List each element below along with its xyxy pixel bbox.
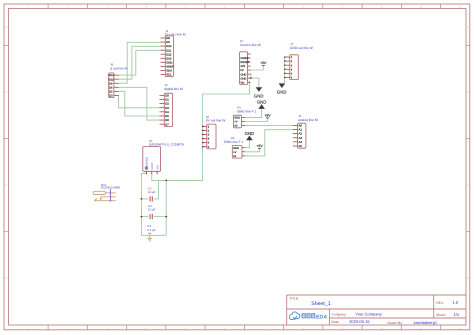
svg-text:SCL: SCL — [166, 73, 172, 77]
svg-text:d out line M: d out line M — [110, 67, 127, 71]
svg-text:Service line W: Service line W — [240, 43, 262, 47]
svg-text:Date:: Date: — [332, 320, 340, 324]
svg-text:D6: D6 — [109, 86, 113, 89]
svg-text:GND out line W: GND out line W — [290, 46, 314, 50]
svg-text:Vin: Vin — [240, 81, 244, 84]
svg-text:GND(ADJ): GND(ADJ) — [146, 157, 149, 170]
svg-text:IOREF: IOREF — [240, 57, 249, 60]
svg-text:VOUT: VOUT — [151, 162, 154, 170]
svg-text:REV:: REV: — [436, 301, 444, 305]
svg-text:VIN: VIN — [156, 165, 159, 169]
svg-text:GND: GND — [234, 117, 240, 120]
svg-text:EDA: EDA — [316, 314, 327, 320]
svg-text:D3: D3 — [109, 95, 113, 98]
svg-text:A1: A1 — [233, 155, 237, 158]
svg-text:GND: GND — [245, 131, 255, 136]
svg-text:D10: D10 — [109, 78, 114, 81]
svg-text:5V: 5V — [240, 69, 243, 72]
svg-text:Sheet_1: Sheet_1 — [311, 301, 330, 307]
svg-text:digital line M: digital line M — [164, 87, 183, 91]
svg-text:10 µF: 10 µF — [148, 190, 156, 194]
svg-text:+5V: +5V — [257, 144, 264, 148]
svg-text:GND: GND — [240, 77, 246, 80]
svg-text:D11: D11 — [109, 74, 114, 77]
svg-text:10 µF: 10 µF — [148, 208, 156, 212]
svg-text:B: B — [5, 91, 7, 94]
svg-text:1.0: 1.0 — [453, 300, 459, 305]
svg-text:D: D — [467, 277, 469, 280]
svg-text:Drawn By:: Drawn By: — [388, 321, 403, 325]
svg-text:Company:: Company: — [332, 313, 347, 317]
svg-text:C: C — [467, 184, 469, 187]
svg-text:0.1 µF: 0.1 µF — [147, 228, 155, 232]
svg-text:D: D — [5, 277, 7, 280]
svg-text:GND: GND — [233, 147, 239, 150]
svg-text:1/1: 1/1 — [454, 312, 460, 317]
svg-text:A: A — [5, 26, 7, 29]
svg-text:analog line M: analog line M — [298, 118, 318, 122]
svg-text:A: A — [467, 26, 469, 29]
svg-text:vasvladserg1: vasvladserg1 — [414, 320, 438, 325]
svg-text:Your Company: Your Company — [355, 312, 381, 317]
svg-text:A5: A5 — [299, 144, 303, 148]
svg-text:D7: D7 — [165, 122, 169, 126]
svg-text:GND: GND — [254, 93, 264, 98]
svg-text:5V out line W: 5V out line W — [206, 119, 226, 123]
svg-text:D + etc line M: D + etc line M — [165, 33, 186, 37]
svg-text:A0: A0 — [234, 125, 238, 128]
svg-text:GND: GND — [257, 100, 267, 105]
svg-text:+5V: +5V — [265, 114, 272, 118]
svg-text:+V: +V — [233, 151, 237, 154]
svg-text:Sheet:: Sheet: — [436, 313, 446, 317]
svg-text:EMG line F 2: EMG line F 2 — [224, 140, 243, 144]
svg-text:C: C — [5, 184, 7, 187]
svg-text:RESET: RESET — [240, 61, 249, 64]
svg-text:LM1084iT-5.0_C259876: LM1084iT-5.0_C259876 — [149, 143, 185, 147]
svg-text:D5: D5 — [109, 90, 113, 93]
svg-text:3V3: 3V3 — [240, 65, 245, 68]
svg-text:2023-05-15: 2023-05-15 — [349, 319, 370, 324]
svg-text:+5V: +5V — [260, 61, 267, 65]
svg-text:+V: +V — [234, 121, 238, 124]
svg-text:GND: GND — [277, 90, 287, 95]
svg-text:D9: D9 — [109, 82, 113, 85]
svg-text:EMG line F 1: EMG line F 1 — [237, 110, 256, 114]
svg-text:TITLE:: TITLE: — [289, 297, 299, 301]
svg-text:GND: GND — [240, 73, 246, 76]
svg-text:B: B — [467, 91, 469, 94]
